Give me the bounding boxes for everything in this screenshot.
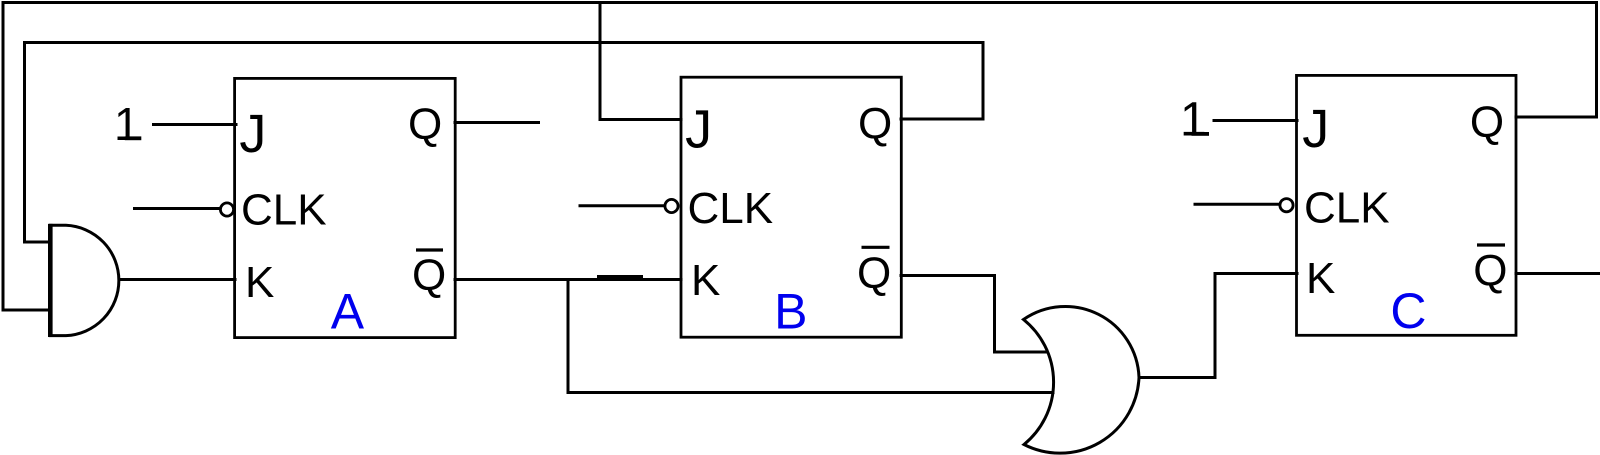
svg-text:CLK: CLK	[1304, 183, 1390, 232]
svg-text:J: J	[685, 100, 712, 160]
svg-text:K: K	[245, 258, 274, 307]
svg-text:1: 1	[114, 98, 140, 150]
svg-text:K: K	[691, 256, 720, 305]
svg-text:Q: Q	[408, 100, 442, 149]
svg-text:1: 1	[1180, 94, 1207, 147]
svg-text:J: J	[1302, 99, 1329, 159]
svg-text:Q: Q	[1473, 247, 1507, 296]
svg-text:CLK: CLK	[241, 185, 327, 234]
svg-text:Q: Q	[1470, 98, 1504, 147]
svg-text:K: K	[1306, 254, 1335, 303]
svg-text:Q: Q	[858, 100, 892, 149]
svg-text:A: A	[331, 284, 365, 340]
svg-text:J: J	[239, 104, 266, 164]
svg-text:B: B	[774, 284, 807, 340]
svg-text:Q: Q	[412, 251, 446, 300]
svg-text:CLK: CLK	[688, 184, 774, 233]
svg-text:C: C	[1390, 283, 1426, 339]
svg-text:Q: Q	[857, 249, 891, 298]
